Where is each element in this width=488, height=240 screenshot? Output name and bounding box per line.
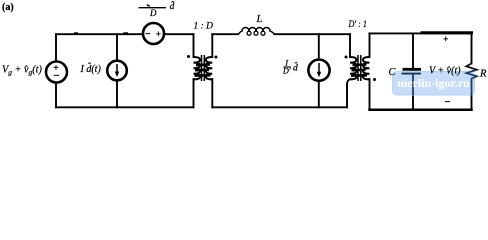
wire: transformer T1 primary top lead xyxy=(193,34,195,57)
transformer T2 polarity dot primary xyxy=(345,56,348,59)
svg-text:D′ : 1: D′ : 1 xyxy=(348,20,367,30)
svg-text:L: L xyxy=(256,14,263,25)
wire: capacitor branch seen through band xyxy=(412,75,414,96)
wire: middle top right of inductor xyxy=(275,33,351,35)
capacitor C bottom plate seen through band xyxy=(402,73,422,75)
transformer T1 polarity dot primary xyxy=(187,55,190,58)
wire: transformer T1 secondary top lead xyxy=(211,34,213,57)
wire: resistor branch lower xyxy=(471,79,473,110)
label fraction /D d (numerator clipped at top) xyxy=(139,0,175,18)
transformer T1 secondary winding xyxy=(206,57,213,79)
current source I d(t) xyxy=(107,61,127,81)
wire: transformer T2 secondary bottom lead xyxy=(369,79,371,110)
wire: middle current source branch lower xyxy=(318,81,320,107)
svg-text:merlin-igor.ru: merlin-igor.ru xyxy=(397,76,470,90)
wire: transformer T1 secondary bottom lead xyxy=(211,79,213,107)
wire: top between series source and transformer T1 xyxy=(164,33,194,35)
svg-text:1 : D: 1 : D xyxy=(194,22,214,32)
svg-text:D: D xyxy=(149,8,157,18)
wire: middle current source branch upper xyxy=(318,34,320,59)
svg-text:C: C xyxy=(389,67,396,78)
transformer T2 primary winding xyxy=(350,57,357,79)
wire: current source branch upper xyxy=(116,34,118,61)
transformer T2 scan blob bars xyxy=(353,63,367,66)
wire: top wire nub 1 xyxy=(75,32,78,34)
transformer T2 xyxy=(350,55,370,81)
svg-text:−: − xyxy=(53,70,59,82)
wire: current source branch lower xyxy=(116,80,118,107)
wire: resistor branch upper xyxy=(471,33,473,63)
wire: capacitor branch upper xyxy=(412,33,414,67)
transformer T1 scan blob bars xyxy=(196,63,210,66)
svg-text:+: + xyxy=(156,29,161,39)
svg-text:Vg + v̂g(t): Vg + v̂g(t) xyxy=(2,65,42,77)
wire: left loop bottom xyxy=(56,106,194,108)
wire: middle top left of inductor xyxy=(212,33,238,35)
wire: middle bottom xyxy=(212,106,347,108)
wire: left loop left vertical lower xyxy=(55,83,57,108)
wire: transformer T2 primary bottom lead with jog xyxy=(347,79,350,107)
transformer T2 polarity dot secondary xyxy=(373,78,376,81)
transformer T2 core xyxy=(357,55,359,81)
wire: top wire nub 2 xyxy=(124,32,128,34)
watermark band merlin-igor.ru xyxy=(393,70,477,95)
inductor L xyxy=(239,28,275,36)
resistor R lower zigzag seen through band xyxy=(466,70,477,78)
wire: left loop top xyxy=(56,33,143,35)
wire: transformer T2 secondary top lead xyxy=(369,33,371,57)
svg-text:D′: D′ xyxy=(282,66,291,75)
resistor R xyxy=(466,64,477,79)
svg-text:R: R xyxy=(479,68,487,79)
transformer T1 xyxy=(194,55,213,81)
transformer T1 polarity dot secondary xyxy=(214,56,217,59)
transformer T1 primary winding xyxy=(194,57,201,79)
voltage source Vg xyxy=(46,62,67,83)
svg-text:d̂: d̂ xyxy=(170,0,175,12)
label I/D' d xyxy=(282,57,298,75)
svg-text:−: − xyxy=(145,29,151,40)
current source I/D' d xyxy=(308,60,329,81)
wire: resistor branch seen through band xyxy=(471,78,473,95)
transformer T1 core xyxy=(201,55,203,81)
wire: output top thick segment xyxy=(422,31,472,34)
wire: output bottom xyxy=(370,109,472,112)
wire: output top xyxy=(370,32,472,34)
wire: capacitor branch lower xyxy=(412,75,414,110)
wire: transformer T2 primary top lead xyxy=(349,34,351,57)
transformer T2 secondary winding xyxy=(363,57,370,79)
wire: transformer T1 primary bottom lead xyxy=(193,79,195,107)
svg-text:(a): (a) xyxy=(2,2,14,13)
capacitor C xyxy=(402,69,422,73)
wire: left loop left vertical upper xyxy=(55,34,57,61)
svg-text:−: − xyxy=(445,97,451,108)
svg-text:V + v̂(t): V + v̂(t) xyxy=(429,66,461,77)
series voltage source e d xyxy=(143,23,164,44)
svg-text:+: + xyxy=(443,35,448,45)
svg-text:I d̂(t): I d̂(t) xyxy=(80,62,102,75)
